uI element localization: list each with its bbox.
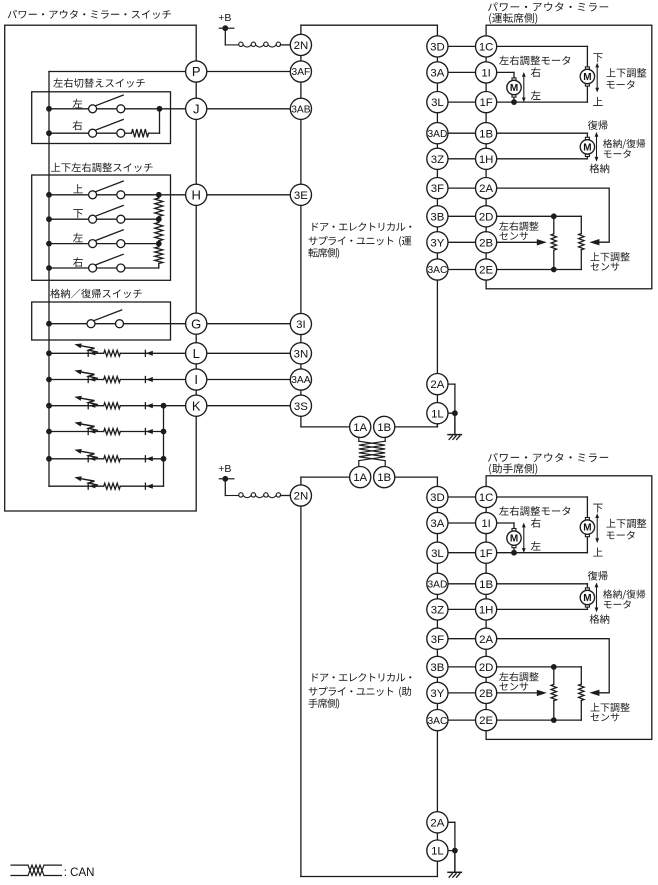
- label 左右調整モータ 助手席側: [499, 506, 570, 516]
- wire 3F to 2A: [437, 187, 486, 189]
- wire 2A to up-down sensor wiper 運転席側: [486, 188, 609, 242]
- LED and resistor row L to connector: [49, 343, 301, 356]
- svg-text:3Z: 3Z: [431, 605, 444, 617]
- node resistor chain junction: [156, 216, 162, 222]
- connector 1C mirror driver: [476, 36, 497, 57]
- connector 2A mirror passenger: [476, 628, 497, 649]
- wire 3Y to 2B: [437, 241, 486, 243]
- sensor resistor up-down 運転席側: [579, 216, 584, 269]
- CAN connector 1B passenger: [374, 467, 395, 488]
- connector 3S door unit driver: [290, 395, 311, 416]
- resistor select-right: [132, 129, 149, 137]
- svg-text:2N: 2N: [294, 40, 309, 52]
- mirror box label パワー・アウタ・ミラー 助手席側: [488, 453, 608, 475]
- wire 1I to left-right motor 助手席側: [486, 523, 514, 529]
- switch contact pair adjust-上: [89, 191, 125, 199]
- connector 2D mirror driver: [476, 206, 497, 227]
- label 上 助手席側: [593, 547, 603, 556]
- CAN connector 1B driver: [374, 416, 395, 437]
- connector 3I door unit driver: [290, 313, 311, 334]
- node bus junction 下 row: [46, 216, 52, 222]
- connector 2D mirror passenger: [476, 656, 497, 677]
- arrow up-down sensor wiper 運転席側: [589, 239, 599, 245]
- wire 2A to up-down sensor wiper 助手席側: [486, 639, 609, 693]
- svg-text:2E: 2E: [479, 715, 493, 727]
- connector 1B mirror driver: [476, 123, 497, 144]
- svg-text:1L: 1L: [431, 408, 444, 420]
- battery feed +B passenger: [218, 463, 234, 496]
- svg-text:3I: 3I: [296, 319, 306, 331]
- switch contact pair adjust-左: [89, 240, 125, 248]
- svg-text:1H: 1H: [479, 154, 494, 166]
- resistor adjust chain 1: [155, 195, 163, 219]
- node K row right junction: [161, 403, 167, 409]
- svg-text:1B: 1B: [479, 579, 493, 591]
- connector 2A mirror driver: [476, 178, 497, 199]
- node sensor top junction 運転席側: [551, 213, 557, 219]
- wire 2D to sensors top 助手席側: [486, 666, 581, 668]
- connector 3AB door unit driver: [290, 98, 311, 119]
- wire 3Y to 2B passenger: [437, 692, 486, 694]
- connector I mirror switch: [186, 369, 207, 390]
- connector 1C mirror passenger: [476, 486, 497, 507]
- svg-text:3N: 3N: [294, 348, 309, 360]
- motor M retract-return 運転席側: [580, 137, 594, 156]
- label 左 助手席側: [531, 541, 541, 550]
- wire 3Z to 1H passenger: [437, 608, 486, 610]
- wire 上 row to H and 3E: [97, 194, 301, 196]
- svg-text:3AB: 3AB: [291, 105, 310, 116]
- wire bus to left-select contact: [49, 108, 89, 110]
- switch contact pair retract: [87, 320, 124, 328]
- switch lever select-left: [95, 95, 123, 106]
- power outer mirror box 助手席側: [486, 476, 652, 740]
- connector 2A door unit passenger bottom: [427, 812, 448, 833]
- motor M left-right adjust 助手席側: [507, 529, 521, 548]
- wire retract motor to 1H 運転席側: [486, 157, 587, 159]
- label 復帰 助手席側: [588, 571, 608, 581]
- label 左: [72, 99, 82, 108]
- wire 1F row 運転席側: [486, 101, 587, 103]
- sensor resistor left-right 助手席側: [551, 667, 556, 720]
- wire unit left bus passenger: [300, 486, 302, 877]
- connector 3A door unit passenger right: [427, 512, 448, 533]
- label 左: [73, 233, 83, 242]
- unit label ドア・エレクトリカル・サプライ・ユニット(助手席側): [308, 673, 411, 709]
- label 下 助手席側: [593, 504, 602, 513]
- svg-text:I: I: [194, 372, 198, 387]
- wire 3S to CAN connector: [301, 426, 350, 428]
- node resistor chain junction: [156, 241, 162, 247]
- svg-text:3D: 3D: [430, 492, 445, 504]
- svg-text:M: M: [583, 593, 591, 604]
- node bus junction 左 row: [46, 241, 52, 247]
- connector 1H mirror passenger: [476, 599, 497, 620]
- connector 3E door unit driver: [290, 184, 311, 205]
- wire CAN 1B to 3D passenger: [384, 477, 437, 486]
- svg-text:3F: 3F: [431, 634, 444, 646]
- connector 2E mirror passenger: [476, 710, 497, 731]
- ground driver unit: [448, 413, 461, 439]
- connector 3Y door unit passenger right: [427, 682, 448, 703]
- wire bus to retract contact: [49, 323, 87, 325]
- connector 3F door unit driver right: [427, 178, 448, 199]
- connector P mirror switch: [186, 61, 207, 82]
- connector 3A door unit driver right: [427, 62, 448, 83]
- node LED row 4 right junction: [161, 429, 167, 435]
- wire 3F to 2A passenger: [437, 638, 486, 640]
- fusible link coil passenger: [225, 493, 280, 498]
- svg-text:G: G: [191, 316, 201, 331]
- retract switch label 格納／復帰スイッチ: [50, 289, 142, 299]
- svg-text:3S: 3S: [294, 401, 308, 413]
- svg-text:3AD: 3AD: [427, 129, 447, 140]
- connector 1H mirror driver: [476, 148, 497, 169]
- arrow left-right sensor wiper 運転席側: [537, 239, 547, 245]
- label 上下調整センサ 助手席側: [591, 703, 630, 722]
- svg-text:3B: 3B: [430, 211, 444, 223]
- wire 1B to 1L: [384, 403, 437, 427]
- wire 3B to 2D passenger: [437, 666, 486, 668]
- wire left-right motor to 1F row 運転席側: [513, 97, 515, 102]
- label 左右調整モータ 運転席側: [499, 56, 570, 66]
- wire bus to 左 contact: [49, 243, 89, 245]
- connector 2E mirror driver: [476, 259, 497, 280]
- svg-text:3B: 3B: [430, 662, 444, 674]
- CAN twisted pair wire: [359, 437, 385, 467]
- label 下 運転席側: [593, 53, 602, 62]
- node bus junction 右 row: [46, 265, 52, 271]
- wire 1I to left-right motor 運転席側: [486, 72, 514, 78]
- node bus-right-select junction: [46, 130, 52, 136]
- select switch box 左右切替えスイッチ: [32, 92, 171, 144]
- connector 3L door unit passenger right: [427, 542, 448, 563]
- wire 3Z to 1H: [437, 158, 486, 160]
- connector 1L door unit driver bottom: [427, 403, 448, 424]
- connector 3AA door unit driver: [290, 369, 311, 390]
- svg-text:2A: 2A: [479, 634, 493, 646]
- wire 3AD to 1B: [437, 132, 486, 134]
- connector 3Y door unit driver right: [427, 232, 448, 253]
- direction arrow up-down motor 運転席側: [595, 63, 599, 93]
- label 上 運転席側: [593, 97, 603, 106]
- node ground junction passenger: [452, 848, 458, 854]
- connector L mirror switch: [186, 343, 207, 364]
- direction arrow left-right motor 助手席側: [522, 523, 526, 553]
- wire unit top arch driver: [301, 24, 438, 26]
- wire 3AD to 1B passenger: [437, 583, 486, 585]
- connector 1I mirror driver: [476, 62, 497, 83]
- svg-text:+B: +B: [218, 12, 231, 24]
- wire LED rows right bus: [163, 406, 165, 487]
- direction arrow up-down motor 助手席側: [595, 513, 599, 543]
- label 左右調整センサ 助手席側: [499, 672, 538, 691]
- connector 3AF door unit driver: [290, 61, 311, 82]
- switch contact pair adjust-右: [89, 264, 125, 272]
- wire 3D to 1C passenger: [437, 496, 486, 498]
- wire 3B to 2D: [437, 215, 486, 217]
- wire 1L to ground passenger: [437, 850, 455, 852]
- connector 2A door unit driver bottom: [427, 374, 448, 395]
- connector 1F mirror driver: [476, 92, 497, 113]
- svg-text:3AC: 3AC: [427, 265, 447, 276]
- connector 2B mirror driver: [476, 232, 497, 253]
- label 格納/復帰モータ 助手席側: [603, 590, 645, 609]
- svg-text:3AF: 3AF: [292, 67, 311, 78]
- mirror switch assembly label パワー・アウタ・ミラー・スイッチ: [8, 10, 171, 19]
- label 上下調整モータ 助手席側: [606, 519, 646, 540]
- wire up-down motor to 1F row 助手席側: [586, 537, 588, 553]
- svg-text:H: H: [192, 187, 201, 202]
- wire 2A to ground driver: [437, 384, 455, 435]
- wire 2A to ground passenger: [437, 822, 455, 872]
- wire retract motor to 1H 助手席側: [486, 607, 587, 609]
- connector 3D door unit driver right: [427, 36, 448, 57]
- wire 2E to sensors bottom 運転席側: [486, 269, 581, 271]
- wire retract row to G and 3I: [95, 323, 301, 325]
- resistor adjust chain 3: [155, 244, 163, 266]
- svg-text:2D: 2D: [479, 211, 494, 223]
- node select junction: [157, 106, 163, 112]
- power outer mirror box 運転席側: [486, 25, 652, 289]
- node bus LED row 4: [46, 429, 52, 435]
- svg-text:1F: 1F: [479, 97, 492, 109]
- switch contact pair select-left: [89, 105, 125, 113]
- label 復帰 運転席側: [588, 120, 608, 130]
- connector H mirror switch: [186, 184, 207, 205]
- svg-text:1A: 1A: [353, 472, 367, 484]
- node left-right motor junction 助手席側: [511, 550, 517, 556]
- connector 3D door unit passenger right: [427, 486, 448, 507]
- label 右: [73, 257, 83, 267]
- switch lever adjust-左: [95, 230, 123, 241]
- wire bus to right-select contact: [49, 132, 89, 134]
- legend CAN twisted pair symbol: [11, 865, 62, 875]
- node bus LED row K: [46, 403, 52, 409]
- node ground junction driver: [452, 410, 458, 416]
- svg-text:L: L: [193, 346, 200, 361]
- wire left-right motor to 1F row 助手席側: [513, 548, 515, 553]
- adjust switch label 上下左右調整スイッチ: [51, 163, 153, 173]
- wire bus to P and 3AF row: [49, 71, 301, 73]
- connector 3AC door unit passenger right: [427, 710, 448, 731]
- svg-text:3D: 3D: [430, 42, 445, 54]
- connector 3F door unit passenger right: [427, 628, 448, 649]
- wire 1C to up-down motor 運転席側: [486, 46, 587, 66]
- adjust switch box 上下左右調整スイッチ: [32, 175, 171, 280]
- svg-text:M: M: [583, 72, 591, 83]
- wire unit left bus driver: [300, 25, 302, 427]
- connector K mirror switch: [186, 395, 207, 416]
- connector 3AD door unit driver right: [427, 123, 448, 144]
- connector 3Z door unit passenger right: [427, 599, 448, 620]
- connector 2B mirror passenger: [476, 682, 497, 703]
- wire 3L to 1F: [437, 101, 486, 103]
- svg-text:1L: 1L: [431, 846, 444, 858]
- direction arrow retract motor 助手席側: [595, 583, 599, 613]
- svg-text:3Y: 3Y: [430, 688, 444, 700]
- wire 2E to sensors bottom 助手席側: [486, 719, 581, 721]
- svg-text:1F: 1F: [479, 548, 492, 560]
- retract switch box 格納／復帰スイッチ: [32, 302, 171, 340]
- svg-text:3AD: 3AD: [427, 580, 447, 591]
- label 右 運転席側: [531, 67, 541, 77]
- svg-text:2B: 2B: [479, 688, 493, 700]
- CAN connector 1A driver: [350, 416, 371, 437]
- svg-text:3Z: 3Z: [431, 154, 444, 166]
- connector 3Z door unit driver right: [427, 148, 448, 169]
- wire 2B to left-right sensor wiper 運転席側: [486, 241, 537, 243]
- svg-text:K: K: [192, 398, 201, 413]
- wire resistor to select junction: [149, 109, 160, 133]
- connector G mirror switch: [186, 313, 207, 334]
- wire unit bottom edge passenger: [301, 876, 438, 878]
- wire 2N to CAN 1A passenger: [301, 477, 350, 486]
- mirror box label パワー・アウタ・ミラー 運転席側: [488, 2, 608, 24]
- label 右 助手席側: [531, 518, 541, 528]
- sensor resistor up-down 助手席側: [579, 667, 584, 720]
- switch lever retract: [94, 310, 122, 321]
- label 上: [73, 184, 83, 193]
- svg-text:M: M: [583, 523, 591, 534]
- wire select-left row to J and 3AB: [97, 108, 301, 110]
- unit label ドア・エレクトリカル・サプライ・ユニット(運転席側): [308, 222, 411, 258]
- svg-text:1I: 1I: [481, 68, 491, 80]
- switch lever select-right: [95, 120, 123, 131]
- svg-text:1I: 1I: [481, 518, 491, 530]
- svg-text:3Y: 3Y: [430, 237, 444, 249]
- wire 下 row to resistor chain: [97, 218, 159, 220]
- label 上下調整センサ 運転席側: [591, 252, 630, 271]
- connector 2N door unit passenger: [290, 485, 311, 506]
- node left-right motor junction 運転席側: [511, 99, 517, 105]
- CAN connector 1A passenger: [350, 467, 371, 488]
- svg-text:1C: 1C: [479, 42, 494, 54]
- LED and resistor row I to connector: [49, 370, 301, 383]
- node bus LED row I: [46, 377, 52, 383]
- node LED row 5 right junction: [161, 456, 167, 462]
- svg-text:M: M: [510, 83, 518, 94]
- wire 3L to 1F passenger: [437, 552, 486, 554]
- svg-text:3AA: 3AA: [291, 375, 310, 386]
- svg-text:2E: 2E: [479, 265, 493, 277]
- label 左右調整センサ 運転席側: [499, 222, 538, 241]
- connector 3B door unit driver right: [427, 206, 448, 227]
- connector 3N door unit driver: [290, 343, 311, 364]
- connector 3B door unit passenger right: [427, 656, 448, 677]
- svg-text:3A: 3A: [430, 518, 444, 530]
- svg-text:1A: 1A: [353, 422, 367, 434]
- label 上下調整モータ 運転席側: [606, 68, 646, 89]
- legend label CAN: [64, 867, 95, 879]
- svg-text:: CAN: : CAN: [64, 867, 95, 879]
- wire bus to 右 contact: [49, 267, 89, 269]
- wire bus to 上 contact: [49, 194, 89, 196]
- LED and resistor row 5: [49, 449, 164, 462]
- connector 1I mirror passenger: [476, 512, 497, 533]
- label 左 運転席側: [531, 90, 541, 99]
- arrow left-right sensor wiper 助手席側: [537, 690, 547, 696]
- connector 1B mirror passenger: [476, 573, 497, 594]
- node resistor top junction: [156, 192, 162, 198]
- node sensor top junction 助手席側: [551, 664, 557, 670]
- wire 3A to 1I: [437, 71, 486, 73]
- wire 1L to ground driver: [437, 412, 455, 414]
- motor M up-down adjust 運転席側: [580, 67, 594, 86]
- wire 3D to 1C: [437, 45, 486, 47]
- svg-text:1B: 1B: [377, 422, 391, 434]
- ground passenger unit: [448, 851, 461, 878]
- wire coil to 2N driver: [280, 44, 290, 46]
- label 右: [73, 120, 83, 130]
- svg-text:2A: 2A: [479, 183, 493, 195]
- svg-text:M: M: [510, 534, 518, 545]
- resistor adjust chain 2: [155, 219, 163, 243]
- connector 1F mirror passenger: [476, 542, 497, 563]
- sensor resistor left-right 運転席側: [551, 216, 556, 269]
- fusible link coil driver: [225, 42, 280, 47]
- select switch label 左右切替えスイッチ: [53, 78, 145, 88]
- label 格納 助手席側: [590, 614, 610, 624]
- svg-text:J: J: [193, 101, 200, 116]
- LED and resistor row K to connector: [49, 396, 301, 409]
- connector 2N door unit driver: [290, 34, 311, 55]
- svg-text:2A: 2A: [430, 817, 444, 829]
- wire 3AC to 2E passenger: [437, 719, 486, 721]
- svg-text:M: M: [583, 143, 591, 154]
- node sensor bottom junction 助手席側: [551, 717, 557, 723]
- switch contact pair select-right: [89, 129, 125, 137]
- svg-text:3F: 3F: [431, 183, 444, 195]
- wire unit right bus driver: [436, 25, 438, 427]
- wire 3AC to 2E: [437, 269, 486, 271]
- label 格納 運転席側: [590, 164, 610, 174]
- connector 1L door unit passenger bottom: [427, 840, 448, 861]
- wire select-right to resistor: [97, 132, 132, 134]
- svg-text:3L: 3L: [431, 548, 444, 560]
- direction arrow left-right motor 運転席側: [522, 72, 526, 102]
- connector 3AC door unit driver right: [427, 259, 448, 280]
- motor M up-down adjust 助手席側: [580, 518, 594, 537]
- wire 1B to retract motor 助手席側: [486, 584, 587, 588]
- wire 右 row corner to resistor chain: [97, 266, 159, 268]
- wire 1C to up-down motor 助手席側: [486, 497, 587, 517]
- label 格納/復帰モータ 運転席側: [603, 139, 645, 158]
- svg-text:P: P: [192, 64, 201, 79]
- switch lever adjust-下: [95, 206, 123, 217]
- wire 左 row to resistor chain: [97, 243, 159, 245]
- connector J mirror switch: [186, 98, 207, 119]
- svg-text:1B: 1B: [479, 128, 493, 140]
- wire 2B to left-right sensor wiper 助手席側: [486, 692, 537, 694]
- wire bus to 下 contact: [49, 218, 89, 220]
- arrow up-down sensor wiper 助手席側: [589, 690, 599, 696]
- motor M retract-return 助手席側: [580, 588, 594, 607]
- node bus-J junction: [46, 106, 52, 112]
- svg-text:3AC: 3AC: [427, 716, 447, 727]
- connector 3L door unit driver right: [427, 92, 448, 113]
- LED and resistor row 6: [49, 476, 164, 489]
- wire coil to 2N passenger: [280, 495, 290, 497]
- connector 3AD door unit passenger right: [427, 573, 448, 594]
- motor M left-right adjust 運転席側: [507, 78, 521, 97]
- wire unit right bus passenger: [436, 486, 438, 876]
- node bus junction 上 row: [46, 192, 52, 198]
- svg-text:2A: 2A: [430, 379, 444, 391]
- direction arrow retract motor 運転席側: [595, 132, 599, 162]
- switch lever adjust-右: [95, 254, 123, 265]
- wire 3A to 1I passenger: [437, 522, 486, 524]
